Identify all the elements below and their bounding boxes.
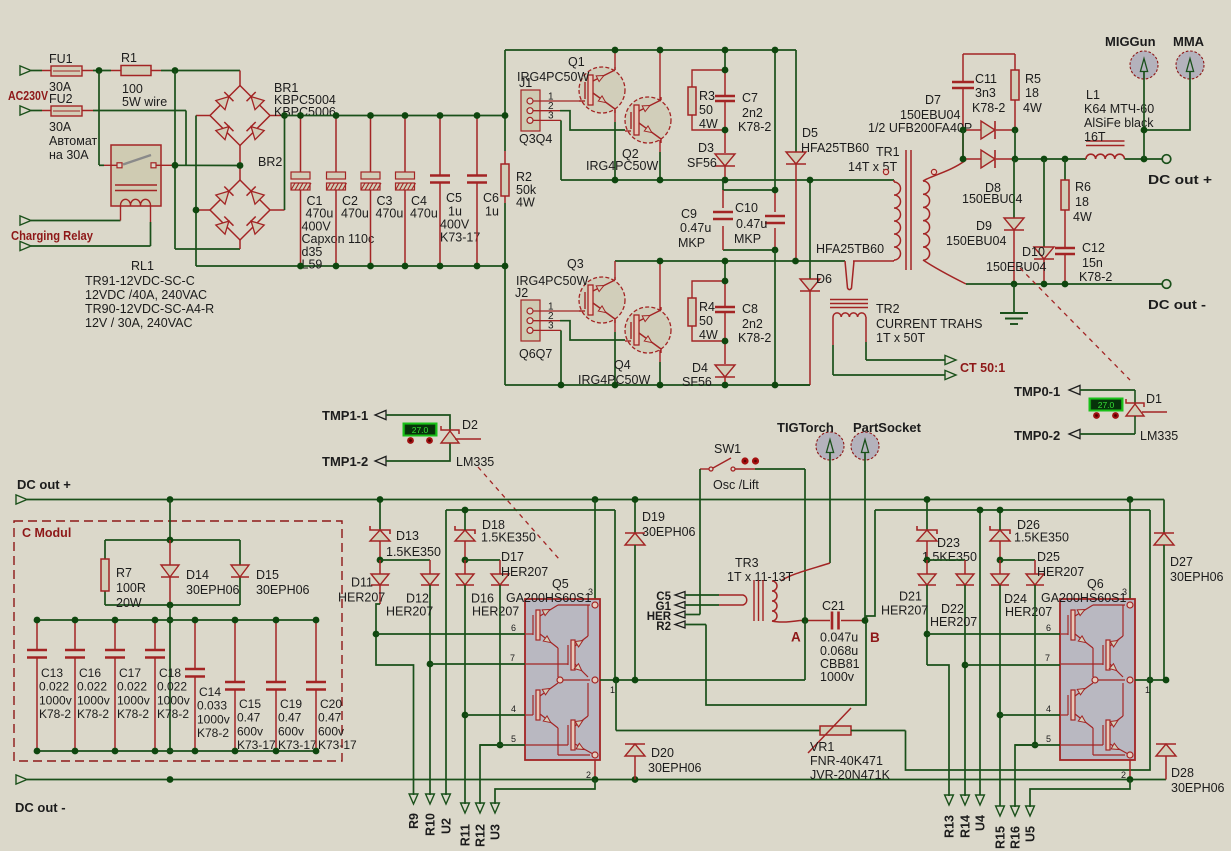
svg-text:4W: 4W: [699, 117, 718, 131]
IGBT module Q5: [506, 577, 615, 780]
node D25 pin5 junction: [1032, 742, 1039, 749]
svg-text:100R: 100R: [116, 581, 146, 595]
node C6 top: [474, 112, 481, 119]
node C2 top: [333, 112, 340, 119]
net label Charging Relay coil B: [20, 206, 151, 251]
svg-text:Q6Q7: Q6Q7: [519, 347, 552, 361]
svg-text:7: 7: [1045, 653, 1050, 663]
node MMA join junction: [1141, 127, 1148, 134]
svg-text:1.5KE350: 1.5KE350: [386, 545, 441, 559]
svg-text:1T x 11-13T: 1T x 11-13T: [727, 570, 794, 584]
node D14 top junction: [167, 537, 174, 544]
node C15 bottom: [232, 748, 239, 755]
node C18 top: [152, 617, 159, 624]
node R3 bottom junction: [722, 127, 729, 134]
svg-text:L59: L59: [302, 258, 323, 272]
diode D7: [868, 93, 1015, 139]
node Q5 pin3 rail junction: [592, 496, 599, 503]
svg-text:600v: 600v: [278, 724, 304, 738]
svg-text:HER207: HER207: [881, 604, 928, 618]
svg-text:4W: 4W: [699, 328, 718, 342]
svg-text:D1: D1: [1146, 392, 1162, 406]
svg-text:L1: L1: [1086, 88, 1100, 102]
svg-text:150EBU04: 150EBU04: [946, 234, 1007, 248]
svg-text:20W: 20W: [116, 596, 142, 610]
svg-text:D24: D24: [1004, 592, 1027, 606]
wire C10 down to lower rail: [774, 250, 776, 385]
wire rail y261: [615, 260, 845, 262]
terminal R12: [474, 803, 488, 847]
transformer TR3 core: [754, 580, 763, 621]
svg-text:16T: 16T: [1084, 130, 1106, 144]
svg-text:D5: D5: [802, 126, 818, 140]
diode D21: [881, 560, 949, 796]
net label Charging Relay text: [11, 228, 94, 243]
wire Q5 pin2 down: [594, 760, 596, 780]
svg-text:30EPH06: 30EPH06: [256, 583, 310, 597]
svg-text:K73-17: K73-17: [318, 738, 357, 752]
node C15 top: [232, 617, 239, 624]
svg-text:R12: R12: [474, 824, 488, 847]
wire CT output upper: [866, 342, 956, 365]
ground: [1000, 284, 1028, 324]
svg-text:5: 5: [511, 734, 516, 744]
svg-text:0.022: 0.022: [117, 680, 147, 694]
svg-text:0.47: 0.47: [237, 711, 261, 725]
wire Q6 pin5: [1015, 744, 1060, 746]
wire top rail y50: [505, 49, 796, 51]
svg-text:D28: D28: [1171, 766, 1194, 780]
wire snubber top loop: [963, 53, 1015, 55]
wire Q4 collector: [659, 261, 661, 310]
net label AC230V input N: [20, 106, 51, 115]
svg-text:DC out +: DC out +: [1148, 172, 1212, 187]
socket MIGGun: [1105, 34, 1158, 159]
wire relay bypass left: [99, 71, 117, 166]
node cap bus bottom feed: [167, 748, 174, 755]
wire Q6 pin6: [927, 633, 1060, 635]
wire J1 pin1 to Q1 gate: [533, 100, 584, 102]
wire U3 tap: [495, 780, 595, 805]
svg-text:R5: R5: [1025, 72, 1041, 86]
relay RL1 body: [111, 145, 161, 206]
svg-text:D9: D9: [976, 219, 992, 233]
svg-text:C21: C21: [822, 599, 845, 613]
svg-text:TR90-12VDC-SC-A4-R: TR90-12VDC-SC-A4-R: [85, 302, 214, 316]
svg-text:D22: D22: [941, 602, 964, 616]
node DC minus C modul junction: [167, 776, 174, 783]
node C20 bottom: [313, 748, 320, 755]
svg-text:1/2 UFB200FA40P: 1/2 UFB200FA40P: [868, 121, 972, 135]
svg-text:D16: D16: [471, 592, 494, 606]
node B junction: [862, 617, 880, 645]
net label C5 arrow: [656, 591, 719, 603]
svg-text:K78-2: K78-2: [738, 120, 771, 134]
resistor R6: [1061, 159, 1092, 247]
svg-text:3: 3: [588, 587, 593, 597]
node C19 bottom: [273, 748, 280, 755]
wire top rail to C10: [774, 50, 776, 190]
diode D24: [991, 560, 1052, 806]
connector J2: [515, 286, 554, 361]
wire loop to cap bus: [169, 605, 171, 751]
svg-text:R4: R4: [699, 300, 715, 314]
terminal U3: [489, 803, 503, 840]
capacitor C5: [430, 116, 480, 267]
net label R2 arrow: [656, 621, 706, 633]
wire TIGTorch to TR3: [781, 453, 830, 582]
diode D13 TVS: [370, 500, 441, 561]
svg-text:C11: C11: [975, 72, 997, 86]
svg-text:150EBU04: 150EBU04: [900, 108, 961, 122]
node C7 top junction: [722, 47, 729, 54]
wire U5 tap: [1030, 780, 1130, 808]
diode D23 TVS: [917, 500, 977, 565]
svg-text:TMP1-1: TMP1-1: [322, 408, 368, 423]
transistor Q4: [578, 307, 671, 387]
capacitor C8: [715, 261, 771, 364]
wire R2 net to B loop: [706, 620, 866, 705]
svg-text:TMP0-2: TMP0-2: [1014, 428, 1060, 443]
wire Q3 collector: [614, 261, 616, 280]
svg-text:C15: C15: [239, 697, 261, 711]
resistor R7: [101, 559, 146, 610]
svg-text:D2: D2: [462, 418, 478, 432]
svg-text:U4: U4: [974, 815, 988, 831]
svg-text:D4: D4: [692, 361, 708, 375]
fuse FU1: [49, 52, 82, 94]
label RL1 relay type: [85, 259, 214, 330]
resistor R4 snubber: [688, 281, 725, 342]
svg-text:GA200HS60S1: GA200HS60S1: [506, 591, 592, 605]
svg-text:U2: U2: [440, 818, 454, 834]
node cap bus top feed: [167, 617, 174, 624]
wire BR left corners down to minus bus: [196, 116, 301, 267]
svg-text:HER207: HER207: [1037, 565, 1084, 579]
svg-text:R2: R2: [516, 170, 532, 184]
node Q5 pin1 D19 junction: [632, 677, 639, 684]
svg-text:0.068u: 0.068u: [820, 644, 858, 658]
svg-text:1.5KE350: 1.5KE350: [922, 550, 977, 564]
svg-text:Автомат: Автомат: [49, 134, 98, 148]
transistor Q2: [586, 97, 671, 173]
transformer TR1 core: [906, 150, 911, 270]
node C3 bottom: [367, 263, 374, 270]
node C16 top: [72, 617, 79, 624]
net label Charging Relay coil A: [20, 206, 121, 226]
svg-text:4: 4: [511, 704, 516, 714]
display 27.0 for D1: [1089, 398, 1124, 419]
socket TIGTorch: [777, 420, 844, 460]
diode D5: [786, 50, 869, 261]
transformer TR2 secondary: [833, 302, 983, 345]
node C1 bottom: [297, 263, 304, 270]
wire CT output lower: [833, 345, 956, 380]
wire A node line: [800, 620, 865, 622]
wire left vertical rail x505: [504, 50, 506, 385]
node D19 top junction: [632, 496, 639, 503]
node D23 bottom junction: [924, 557, 931, 564]
svg-text:TMP1-2: TMP1-2: [322, 454, 368, 469]
diode D28: [1156, 744, 1225, 795]
svg-text:12VDC /40A, 240VAC: 12VDC /40A, 240VAC: [85, 288, 207, 302]
diode D20: [625, 744, 702, 780]
node D23 top junction: [924, 496, 931, 503]
capacitor C3: [361, 116, 403, 267]
wire J1 pin3 to mid rail: [533, 120, 561, 180]
svg-text:R14: R14: [959, 815, 973, 838]
svg-text:3: 3: [1122, 587, 1127, 597]
node D7 right junction: [1012, 127, 1019, 134]
wire U2 feed: [446, 510, 615, 795]
wire dashed link to D17: [478, 467, 559, 559]
svg-text:C13: C13: [41, 666, 63, 680]
terminal R14: [959, 795, 973, 838]
node C8 top junction: [722, 258, 729, 265]
svg-text:D12: D12: [406, 592, 429, 606]
temperature sensor D2 LM335: [441, 418, 494, 469]
svg-text:C Modul: C Modul: [22, 526, 71, 540]
net label G1 arrow: [656, 601, 719, 613]
svg-text:RL1: RL1: [131, 259, 154, 273]
node R4 bottom junction: [722, 338, 729, 345]
wire J1 pin2 to Q2 gate: [533, 111, 625, 130]
node C5 bottom: [437, 263, 444, 270]
wire J2 pin1 to Q3 gate: [533, 310, 584, 312]
wire cap bank bottom bus: [37, 750, 316, 752]
svg-text:0.47: 0.47: [278, 711, 302, 725]
svg-text:JVR-20N471K: JVR-20N471K: [810, 768, 891, 782]
switch SW1: [709, 442, 759, 492]
svg-text:C19: C19: [280, 697, 302, 711]
diode D18 TVS: [455, 510, 536, 560]
node D26 bottom junction: [997, 557, 1004, 564]
terminal DC out minus: [1148, 280, 1206, 312]
svg-text:C5: C5: [446, 191, 462, 205]
svg-text:R15: R15: [994, 826, 1008, 849]
node Q1 emitter junction: [612, 177, 619, 184]
svg-text:30EPH06: 30EPH06: [648, 761, 702, 775]
svg-text:TMP0-1: TMP0-1: [1014, 384, 1060, 399]
transistor Q3: [516, 257, 625, 323]
svg-text:6: 6: [511, 623, 516, 633]
node R1 output junction: [172, 67, 179, 74]
wire J2 pin3 to rail: [533, 330, 561, 385]
node C4 top: [402, 112, 409, 119]
svg-text:HER207: HER207: [472, 605, 519, 619]
svg-text:30EPH06: 30EPH06: [1171, 781, 1225, 795]
svg-text:0.022: 0.022: [39, 680, 69, 694]
wire Q5 pin7: [430, 663, 525, 665]
node D14 bottom junction: [167, 602, 174, 609]
svg-text:R16: R16: [1009, 826, 1023, 849]
svg-text:AC230V: AC230V: [8, 88, 48, 103]
svg-text:HER207: HER207: [386, 605, 433, 619]
svg-text:FU2: FU2: [49, 92, 73, 106]
svg-text:HFA25TB60: HFA25TB60: [801, 141, 869, 155]
svg-text:VR1: VR1: [810, 740, 834, 754]
wire D18 to D17 link: [465, 559, 500, 561]
node D16 pin4 junction: [462, 712, 469, 719]
diode D14: [161, 540, 240, 605]
svg-text:1000v: 1000v: [157, 693, 190, 707]
wire D26 to D25 link: [1000, 559, 1035, 561]
svg-text:R6: R6: [1075, 180, 1091, 194]
node C10 rail385 junction: [772, 382, 779, 389]
node Q5 pin1 VR1 junction: [613, 677, 620, 684]
svg-text:CT 50:1: CT 50:1: [960, 361, 1005, 375]
svg-text:LM335: LM335: [456, 455, 494, 469]
node C20 top: [313, 617, 320, 624]
node R4 top junction: [722, 278, 729, 285]
node Q2 collector junction: [657, 47, 664, 54]
svg-text:CBB81: CBB81: [820, 657, 860, 671]
terminal U4: [974, 795, 988, 831]
svg-text:D25: D25: [1037, 550, 1060, 564]
svg-text:0.022: 0.022: [77, 680, 107, 694]
net label TMP1-1: [322, 408, 450, 431]
svg-text:K73-17: K73-17: [440, 231, 480, 245]
capacitor C17: [105, 620, 150, 751]
svg-text:D27: D27: [1170, 555, 1193, 569]
node C17 top: [112, 617, 119, 624]
svg-text:18: 18: [1025, 86, 1039, 100]
terminal U2: [440, 794, 454, 834]
diode D16: [456, 560, 519, 804]
wire D23 to D22 link: [927, 559, 965, 561]
svg-text:R7: R7: [116, 566, 132, 580]
net label DC out minus bottom: [15, 775, 1166, 815]
svg-text:BR2: BR2: [258, 155, 282, 169]
wire R1 to BR1 top: [151, 70, 240, 72]
svg-text:K78-2: K78-2: [738, 331, 771, 345]
svg-text:D10: D10: [1022, 245, 1045, 259]
svg-text:6: 6: [1046, 623, 1051, 633]
wire D6 bottom to rail385: [780, 384, 810, 386]
display 27.0 for D2: [403, 423, 438, 444]
connector J1: [519, 76, 554, 146]
wire relay contact to bridge node: [156, 71, 240, 250]
svg-text:MKP: MKP: [734, 232, 761, 246]
terminal R9: [407, 794, 421, 829]
node Q1 collector junction: [612, 47, 619, 54]
svg-text:D11: D11: [351, 576, 373, 590]
wire R7 D14 D15 loop: [105, 540, 240, 605]
svg-text:TR1: TR1: [876, 145, 900, 159]
node C3 top: [367, 112, 374, 119]
svg-text:27.0: 27.0: [412, 425, 429, 435]
wire PartSocket to B node: [864, 453, 866, 621]
svg-text:K78-2: K78-2: [1079, 270, 1112, 284]
wire Q6 pin2 down: [1129, 760, 1131, 780]
node D8 left junction: [960, 156, 967, 163]
svg-text:R11: R11: [459, 824, 473, 846]
node J2 pin3 junction: [558, 382, 565, 389]
diode D26 TVS: [990, 510, 1069, 560]
terminal R11: [459, 803, 473, 846]
diode D3: [687, 141, 735, 180]
wire Q6 pin4: [1000, 714, 1060, 716]
svg-text:K73-17: K73-17: [237, 738, 276, 752]
node bus minus to rail: [502, 263, 509, 270]
capacitor C1: [291, 116, 374, 272]
transformer TR3 secondary: [772, 581, 800, 622]
svg-text:K78-2: K78-2: [197, 726, 229, 740]
svg-text:470u: 470u: [341, 207, 369, 221]
socket PartSocket: [851, 420, 922, 460]
net label TMP0-2: [1014, 428, 1135, 443]
wire BR right corners vertical: [284, 116, 286, 211]
svg-text:SF56: SF56: [682, 375, 712, 389]
diode D4: [682, 361, 735, 389]
transformer TR2 current transformer primary loop: [845, 261, 854, 290]
svg-text:C7: C7: [742, 91, 758, 105]
svg-text:Q3: Q3: [567, 257, 584, 271]
svg-text:D21: D21: [899, 590, 922, 604]
svg-text:DC out -: DC out -: [15, 800, 66, 815]
transistor Q1: [517, 55, 625, 113]
IGBT module Q6: [1041, 577, 1150, 780]
svg-text:D3: D3: [698, 141, 714, 155]
svg-text:K78-2: K78-2: [117, 707, 149, 721]
wire Q2 collector: [659, 50, 661, 100]
svg-text:C8: C8: [742, 302, 758, 316]
svg-text:0.47u: 0.47u: [680, 221, 711, 235]
svg-text:C20: C20: [320, 697, 342, 711]
svg-text:MKP: MKP: [678, 236, 705, 250]
wire A node to Q5 pin1: [804, 621, 806, 681]
wire SW1 left to HER net: [700, 469, 709, 615]
capacitor C13: [27, 620, 72, 751]
node C modul feed junction: [167, 496, 174, 503]
svg-text:PartSocket: PartSocket: [853, 420, 922, 435]
svg-text:2n2: 2n2: [742, 317, 763, 331]
node R6 top junction: [1062, 156, 1069, 163]
svg-text:FU1: FU1: [49, 52, 73, 66]
node D12 pin7 junction: [427, 661, 434, 668]
svg-text:Charging Relay: Charging Relay: [11, 228, 94, 243]
C Modul dashed box: [14, 521, 342, 761]
node C14 bottom: [192, 748, 199, 755]
svg-text:Osc /Lift: Osc /Lift: [713, 478, 759, 492]
svg-text:R2: R2: [656, 621, 671, 633]
diode D19: [625, 500, 696, 681]
svg-text:0.047u: 0.047u: [820, 631, 858, 645]
svg-text:2: 2: [1121, 770, 1126, 780]
svg-text:D20: D20: [651, 746, 674, 760]
inductor L1: [1084, 88, 1154, 159]
svg-text:K78-2: K78-2: [157, 707, 189, 721]
svg-text:1000v: 1000v: [117, 693, 150, 707]
svg-text:на 30А: на 30А: [49, 148, 89, 162]
wire DC plus line: [1015, 158, 1086, 160]
net label TMP0-1: [1014, 384, 1135, 399]
svg-text:IRG4PC50W: IRG4PC50W: [578, 373, 650, 387]
wire pin5 to R12 leg: [480, 745, 500, 804]
svg-text:470u: 470u: [376, 207, 404, 221]
node C1 top: [297, 112, 304, 119]
wire C modul feed: [169, 500, 171, 541]
svg-text:0.47: 0.47: [318, 711, 342, 725]
svg-text:R3: R3: [699, 89, 715, 103]
transformer TR1 secondary: [883, 160, 966, 284]
svg-text:30A: 30A: [49, 120, 72, 134]
wire D7 column verticals: [963, 130, 1015, 160]
diode D25: [1026, 550, 1084, 745]
svg-text:U5: U5: [1024, 826, 1038, 842]
svg-text:HER207: HER207: [338, 591, 385, 605]
svg-text:100: 100: [122, 82, 143, 96]
